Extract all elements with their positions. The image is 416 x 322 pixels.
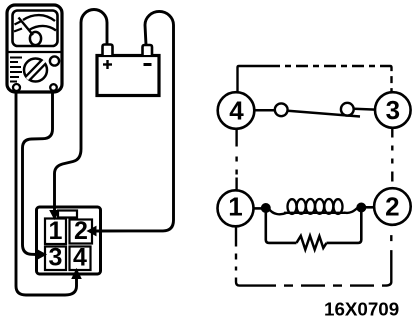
meter scale arc upper [23,15,55,21]
relay outline dash left (4 to 1) [235,129,237,190]
svg-text:3: 3 [49,244,63,272]
switch contact left [275,103,288,116]
meter range markings [10,58,22,82]
connector J1 outer shell [37,207,101,274]
meter terminal left [13,84,20,91]
meter terminal right [50,84,57,91]
svg-text:16X0709: 16X0709 [324,299,399,320]
coil L1 baseline [284,212,345,214]
wire meter right lead to connector pin3 [23,86,53,255]
meter needle pivot [30,32,41,45]
wire 4 to switch [254,109,275,112]
wire 1 to coil [254,207,263,210]
switch blade [288,111,360,117]
junction node A [261,204,270,213]
terminal circle 2 [374,188,411,225]
svg-text:1: 1 [49,217,63,245]
resistor R1 branch left [266,212,297,243]
battery B1 body [97,56,159,96]
svg-text:4: 4 [229,95,244,125]
wire battery- to connector pin2 [96,11,174,231]
svg-text:4: 4 [73,244,87,272]
arrow into pin 4 [72,269,81,279]
meter selector knob [24,59,47,82]
terminal circle 4 [218,92,255,129]
battery positive post [103,45,113,56]
arrow into pin 3 [38,250,47,259]
wire meter left lead to connector pin4 [16,86,77,295]
terminal circle 3 [375,92,411,128]
relay outline dash top horizontal [268,65,383,67]
resistor R1 branch right [327,212,362,243]
multimeter face window [13,11,58,47]
resistor R1 [297,236,327,250]
relay outline dash bottom (1 to 2) [252,284,385,286]
connector pin 3 cavity [45,247,66,271]
connector pin 1 cavity [45,219,66,245]
svg-text:2: 2 [385,191,399,221]
meter panel divider [8,51,61,53]
wire switch to 3 [354,108,376,111]
svg-text:1: 1 [228,192,242,222]
relay outline dash right (3 to 2) [391,128,393,188]
battery + label [103,60,112,69]
coil L1 lead-in [269,209,286,214]
relay outline dash left lower + bottom left corner [236,227,252,286]
meter knob slot [27,61,45,79]
multimeter M1 body [7,5,62,92]
switch contact right [341,103,354,116]
arrow into pin 1 [50,211,59,220]
meter jack hole [50,56,59,65]
wire battery+ to connector pin1 [55,10,108,211]
battery negative post [143,45,153,55]
terminal circle 1 [218,190,254,226]
wire coil to 2 [366,206,375,209]
arrow into pin 2 [88,227,97,236]
relay outline dash bottom right corner + right lower [385,225,391,286]
relay outline dash: 4 up corner [238,66,269,92]
connector pin 4 cavity [70,247,91,271]
connector keying tab [58,211,77,218]
relay outline dash: 3 up corner [383,66,392,92]
meter scale tick marks [14,22,22,32]
battery - label [144,63,152,66]
meter needle [19,18,34,36]
junction node B [357,203,366,212]
svg-text:2: 2 [74,217,88,245]
meter scale arc lower [29,26,56,31]
svg-text:3: 3 [386,95,400,125]
coil L1 loops [288,199,343,214]
coil L1 lead-out [344,208,357,213]
connector pin 2 cavity [70,220,93,244]
